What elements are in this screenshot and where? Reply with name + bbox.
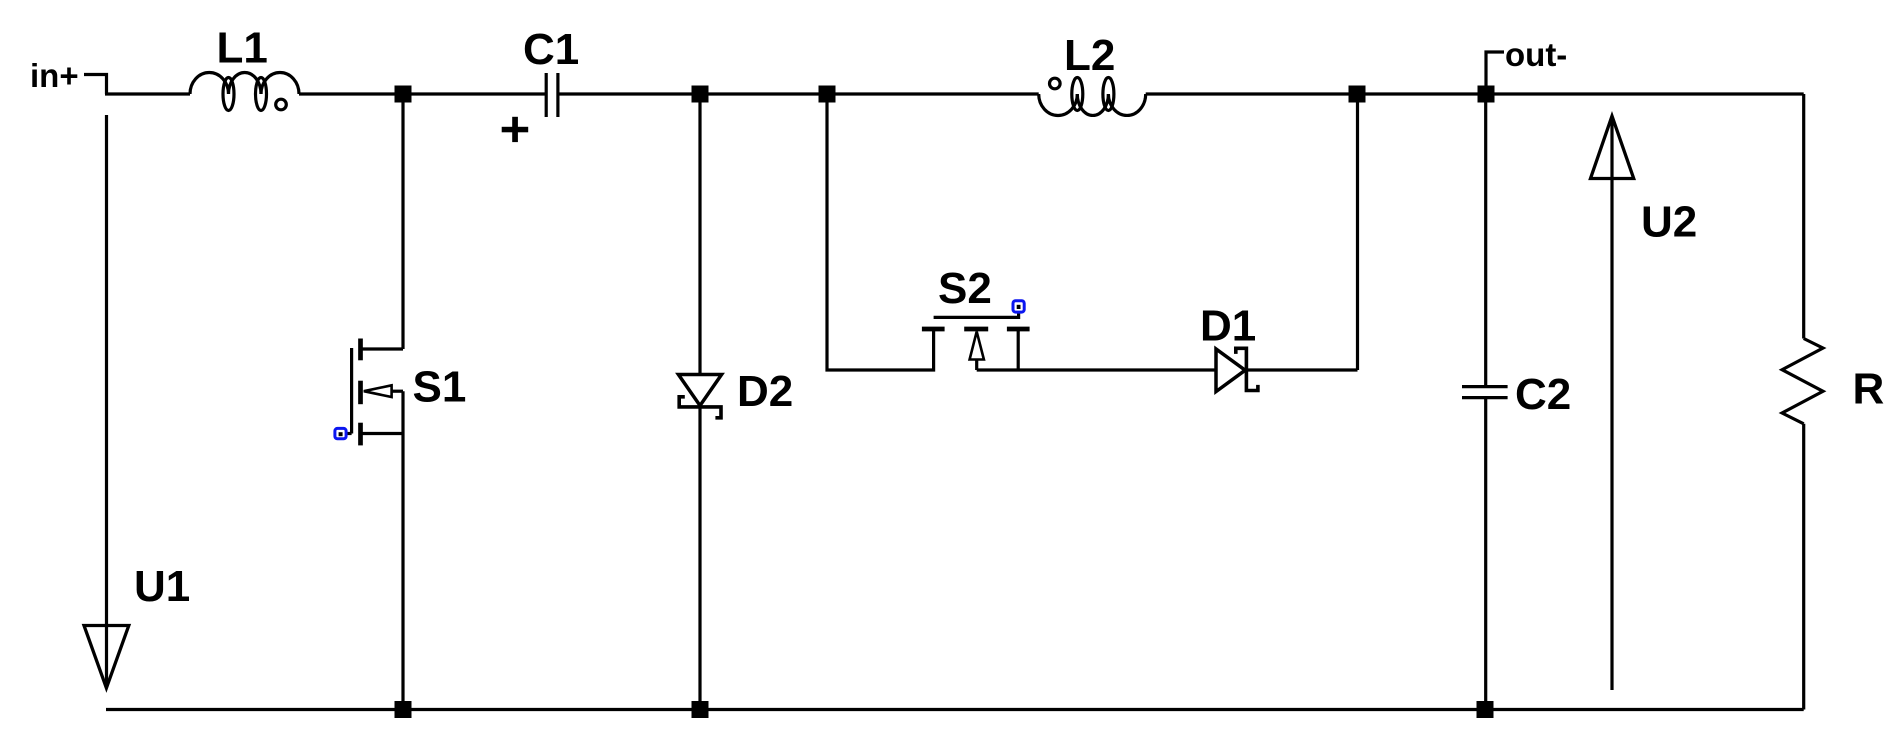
node <box>692 86 709 103</box>
svg-text:C2: C2 <box>1515 370 1571 419</box>
capacitor C2 <box>1462 94 1571 710</box>
gate line <box>934 312 1019 317</box>
svg-text:D1: D1 <box>1200 302 1256 351</box>
node <box>1478 86 1495 103</box>
svg-text:U1: U1 <box>134 562 190 611</box>
svg-text:L1: L1 <box>217 24 268 73</box>
capacitor C1 <box>502 25 580 142</box>
svg-text:C1: C1 <box>523 25 579 74</box>
voltage arrow U1 <box>84 115 190 688</box>
body arrow <box>970 332 984 360</box>
zener diode D2 <box>678 94 793 710</box>
wire <box>1246 368 1357 371</box>
wire <box>84 75 107 95</box>
wire <box>1802 424 1805 710</box>
wire <box>106 708 1804 711</box>
gate terminal <box>1013 301 1024 312</box>
svg-text:S2: S2 <box>938 264 992 313</box>
voltage arrow U2 <box>1591 116 1698 690</box>
wire <box>1802 94 1805 339</box>
wire <box>1356 94 1359 370</box>
svg-text:U2: U2 <box>1641 198 1697 247</box>
wire <box>698 94 701 375</box>
svg-text:R: R <box>1853 365 1885 414</box>
mosfet S2 <box>827 94 1216 370</box>
body arrow <box>364 385 392 397</box>
gate terminal <box>335 428 346 438</box>
node <box>692 701 709 718</box>
mosfet S1 <box>335 94 466 710</box>
wire <box>105 92 190 95</box>
wire <box>558 92 1039 95</box>
inductor L1 <box>190 24 299 111</box>
inductor L2 <box>1039 31 1146 116</box>
node <box>395 701 412 718</box>
svg-text:out-: out- <box>1505 36 1567 73</box>
wire <box>361 347 404 350</box>
wire <box>827 94 934 370</box>
gate line <box>350 348 353 434</box>
svg-text:L2: L2 <box>1064 31 1115 80</box>
svg-text:D2: D2 <box>737 367 793 416</box>
channel bars <box>358 339 363 361</box>
node <box>1477 701 1494 718</box>
gate lead wire <box>341 432 352 435</box>
wire <box>975 360 978 371</box>
wire <box>392 390 403 393</box>
wire <box>698 407 701 710</box>
wire <box>299 92 546 95</box>
wire <box>401 391 404 709</box>
wire <box>1484 94 1487 386</box>
svg-text:in+: in+ <box>30 57 79 94</box>
node <box>1349 86 1366 103</box>
wire <box>1146 92 1804 95</box>
node <box>819 86 836 103</box>
resistor R <box>1782 339 1884 424</box>
wire <box>1017 329 1020 370</box>
channel bars <box>922 327 945 332</box>
zener diode D1 <box>1200 94 1358 392</box>
wire <box>1484 398 1487 710</box>
wire <box>1486 52 1504 94</box>
svg-text:S1: S1 <box>413 363 467 412</box>
node <box>395 86 412 103</box>
wire <box>977 368 1216 371</box>
wire <box>401 94 404 349</box>
wire <box>361 432 404 435</box>
